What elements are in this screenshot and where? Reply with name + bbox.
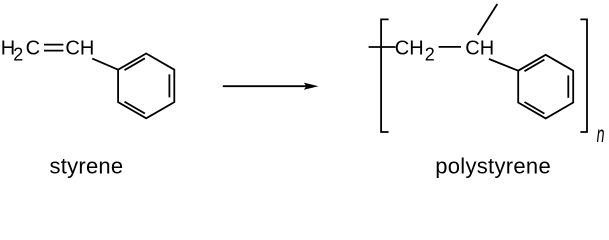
benzene ring left (outer hexagon) <box>118 54 174 119</box>
label H2C (vinyl group text) <box>1 38 40 65</box>
benzene ring right inner double bonds <box>525 60 569 114</box>
benzene ring right (outer hexagon) <box>518 55 573 119</box>
reaction arrow <box>223 83 319 90</box>
svg-text:C: C <box>26 38 40 60</box>
svg-text:n: n <box>597 123 605 148</box>
benzene ring left inner double bonds <box>125 58 170 113</box>
svg-text:2: 2 <box>425 44 435 64</box>
double bond C=C <box>44 45 63 51</box>
svg-text:polystyrene: polystyrene <box>435 153 551 178</box>
svg-text:CH: CH <box>465 37 494 59</box>
bond CH upward (chain continuation) <box>478 4 498 35</box>
bond CH2 to CH <box>439 46 461 48</box>
svg-text:2: 2 <box>13 45 23 65</box>
bond CH to ring <box>92 59 118 70</box>
bond entering bracket <box>369 46 396 48</box>
svg-text:styrene: styrene <box>50 153 124 178</box>
right bracket <box>580 19 587 132</box>
left bracket <box>381 19 389 132</box>
bond CH to ring <box>489 59 518 71</box>
svg-text:CH: CH <box>395 37 424 59</box>
label CH2 (backbone) <box>395 37 435 64</box>
svg-text:CH: CH <box>65 38 94 60</box>
